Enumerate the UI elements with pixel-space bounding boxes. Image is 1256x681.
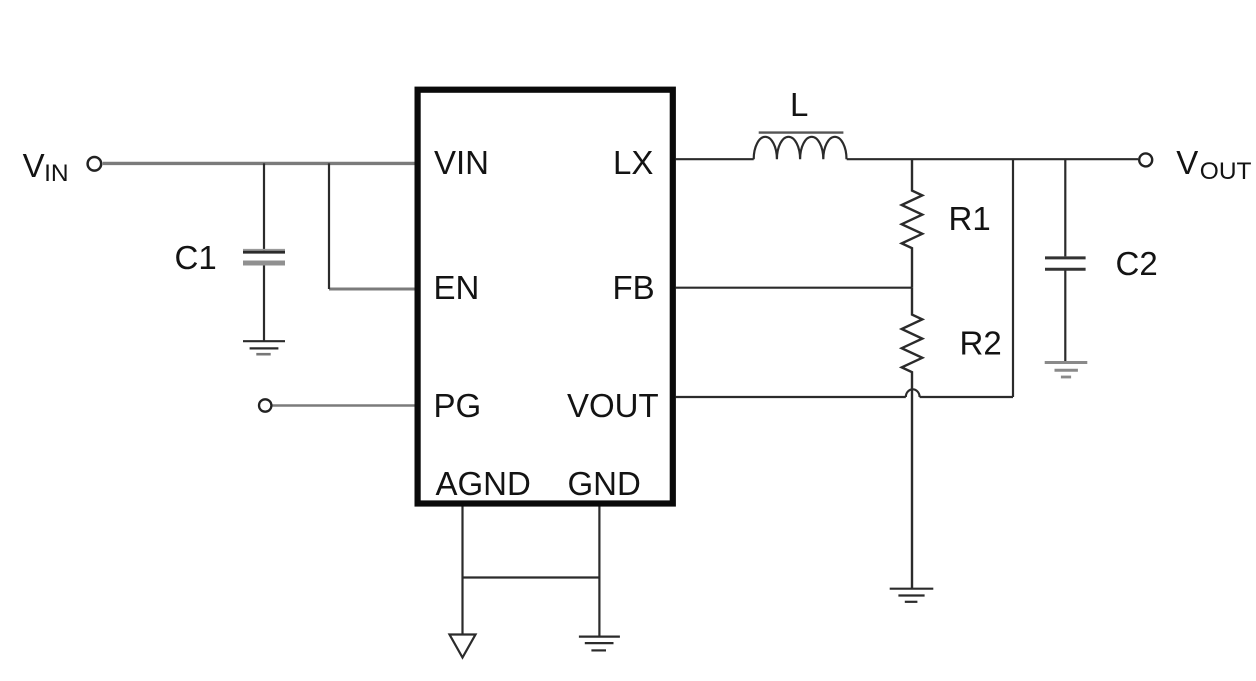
svg-text:VOUT: VOUT xyxy=(567,387,659,424)
svg-text:OUT: OUT xyxy=(1200,158,1252,185)
svg-text:C2: C2 xyxy=(1116,245,1158,282)
svg-text:C1: C1 xyxy=(175,239,217,276)
svg-text:EN: EN xyxy=(434,269,480,306)
svg-text:R1: R1 xyxy=(949,200,991,237)
svg-text:PG: PG xyxy=(434,387,482,424)
svg-text:L: L xyxy=(790,86,808,123)
svg-text:VIN: VIN xyxy=(434,144,489,181)
svg-text:IN: IN xyxy=(44,160,69,187)
svg-text:V: V xyxy=(23,147,45,184)
svg-text:LX: LX xyxy=(613,144,653,181)
svg-text:GND: GND xyxy=(568,465,641,502)
svg-text:FB: FB xyxy=(613,269,655,306)
svg-text:AGND: AGND xyxy=(436,465,531,502)
svg-text:V: V xyxy=(1176,144,1198,181)
svg-text:R2: R2 xyxy=(960,324,1002,361)
